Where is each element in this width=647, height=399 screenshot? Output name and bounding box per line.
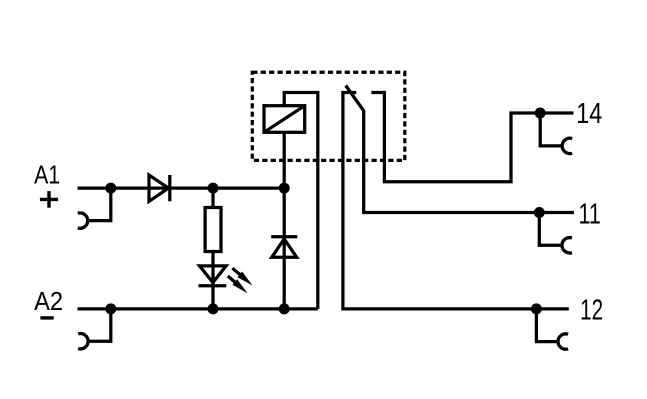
clamp contact 14 [562,138,572,153]
LED arrow 1 [232,268,252,285]
junction dot flyback bottom [279,303,290,314]
wire A1 clamp drop [88,188,111,221]
terminal label A1 [34,162,60,190]
svg-text:11: 11 [579,198,601,230]
wire A1 horizontal [78,186,285,189]
svg-text:12: 12 [580,295,603,327]
clamp contact A1 [78,213,88,228]
polarity mark - [40,316,53,319]
LED D2 [199,266,227,286]
diode D3 flyback [271,237,297,257]
clamp contact A2 [78,334,88,349]
junction dot resistor branch [208,183,219,194]
terminal label 12 [580,295,603,327]
junction dot terminal 11 [534,207,545,218]
contact pole blade with wire to 11 [346,86,574,213]
diode D1 series [149,175,170,201]
contact NC fixed with wire to 12 [343,93,569,309]
svg-text:A2: A2 [34,288,63,316]
wire 14 clamp drop [540,113,562,146]
junction dot flyback top [279,183,290,194]
wire resistor to LED to A2 [211,252,214,309]
wire resistor branch upper [211,188,214,207]
svg-text:14: 14 [576,98,602,130]
terminal label 11 [579,198,601,230]
terminal label A2 [34,288,63,316]
junction dot terminal 14 [535,108,546,119]
relay coil K1 [264,106,305,133]
LED arrow 2 [228,276,248,293]
wire 12 clamp drop [536,309,558,342]
junction dot A2 clamp [105,303,116,314]
wire flyback branch [283,188,286,309]
clamp contact 11 [562,238,572,253]
junction dot A1 clamp [105,183,116,194]
resistor R1 [205,208,221,252]
junction dot LED to A2 [208,303,219,314]
contact NO fixed with wire to 14 [371,93,573,182]
junction dot terminal 12 [531,303,542,314]
wire coil bottom pin to A1 [283,132,286,188]
wire 11 clamp drop [539,213,562,246]
relay K1 dashed enclosure [252,72,404,160]
svg-text:A1: A1 [34,162,60,190]
wire A2 horizontal [78,307,318,310]
clamp contact 12 [558,334,568,349]
wire coil top pin to A2 [284,93,318,309]
polarity mark + [40,191,58,208]
wire A2 clamp drop [88,309,111,341]
terminal label 14 [576,98,602,130]
